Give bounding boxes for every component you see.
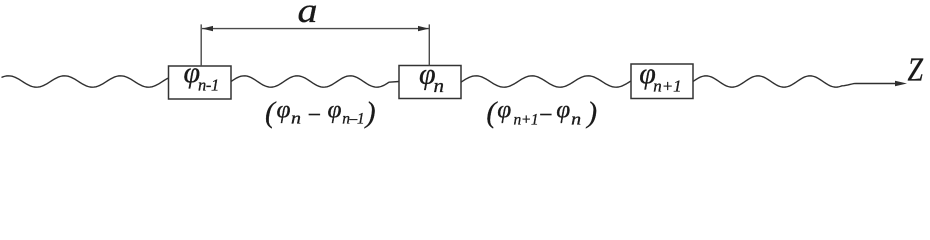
- svg-text:n+1: n+1: [653, 77, 681, 96]
- svg-text:−: −: [538, 102, 554, 128]
- svg-text:n: n: [291, 109, 301, 128]
- svg-text:φ: φ: [328, 96, 342, 123]
- svg-text:φ: φ: [277, 96, 291, 123]
- svg-text:n–1: n–1: [342, 111, 364, 128]
- svg-text:): ): [364, 97, 376, 129]
- svg-text:n+1: n+1: [514, 111, 539, 128]
- svg-text:n-1: n-1: [198, 75, 219, 94]
- svg-text:n: n: [571, 109, 581, 128]
- svg-text:φ: φ: [497, 96, 511, 123]
- svg-text:a: a: [298, 0, 318, 30]
- svg-text:Z: Z: [908, 51, 924, 88]
- svg-text:−: −: [306, 102, 322, 128]
- svg-text:φ: φ: [556, 96, 570, 123]
- svg-text:): ): [585, 97, 597, 129]
- svg-text:n: n: [434, 76, 445, 97]
